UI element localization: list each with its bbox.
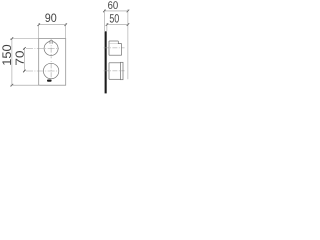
dim 150: top extension line (10, 38, 39, 40)
bottom knob circle (volume handle) (43, 63, 58, 78)
dim 70: line (23, 48, 25, 71)
dim 90: line (39, 24, 66, 26)
top knob profile: bottom edge (109, 54, 122, 56)
dim 60: left tick (103, 10, 106, 13)
dim 50: right tick (127, 23, 130, 26)
dim 60: line (104, 10, 128, 12)
dim 90: right tick (65, 23, 68, 26)
dim 90: left tick (38, 23, 41, 26)
dim 150: text (rotated) (2, 45, 11, 65)
dim 50: left extension line (106, 23, 108, 31)
dim 70: top tick (23, 47, 26, 50)
dim 90: right extension line (65, 23, 67, 40)
top knob profile: shoulder seam (109, 43, 118, 45)
dim 60/50: shared right extension line (127, 9, 129, 79)
top knob circle (thermostat handle) (44, 41, 58, 55)
dim 150: bottom extension line (10, 84, 39, 86)
dim 150: bottom tick (11, 84, 14, 87)
top knob profile: back edge (108, 41, 110, 55)
dim 70: text (rotated) (16, 51, 24, 65)
top knob button tab (50, 41, 53, 44)
top knob vertical centerline (50, 39, 52, 59)
bottom knob profile: top edge (109, 62, 120, 64)
dim 70: bottom tick (23, 70, 26, 73)
dim 50: line (107, 24, 128, 26)
plate (escutcheon rectangle 90x150) (39, 39, 66, 86)
bottom knob profile: back edge (108, 63, 110, 80)
wall / plate edge (thick dark bar) (105, 31, 107, 93)
bottom knob profile: centerline (104, 70, 125, 72)
dim 150: line (11, 39, 13, 86)
dim 50: text (110, 14, 119, 23)
top knob profile: centerline (104, 47, 125, 49)
dim 60: left extension line (103, 9, 105, 31)
dim 90: text (45, 14, 56, 23)
top knob horizontal centerline + 70-dim top extension (23, 47, 59, 49)
bottom knob dark marker (47, 80, 52, 82)
bottom knob horizontal centerline + 70-dim bottom extension (23, 70, 59, 72)
dim 60: right tick (127, 10, 130, 13)
dim 150: top tick (11, 37, 14, 40)
top knob profile: top edge (109, 40, 118, 42)
top knob profile: step (118, 41, 121, 44)
bottom knob profile: bottom edge (109, 78, 120, 80)
dim 60: text (108, 1, 118, 9)
dim 50: left tick (106, 23, 109, 26)
dim 90: left extension line (38, 23, 40, 40)
bottom knob profile: front ring (120, 62, 123, 79)
bottom knob vertical centerline (50, 61, 52, 80)
top knob profile: front edge (121, 44, 123, 56)
